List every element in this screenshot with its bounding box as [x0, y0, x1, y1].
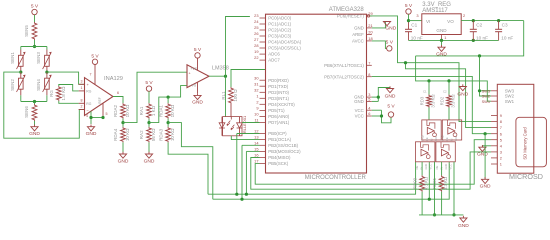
svg-text:13: 13 [254, 135, 258, 140]
svg-text:26: 26 [254, 31, 258, 36]
microcontroller U3 ATMEGA328 body [266, 14, 367, 173]
svg-text:10 nF: 10 nF [501, 35, 513, 40]
svg-text:OE: OE [415, 165, 419, 169]
svg-text:PD6(AIN0): PD6(AIN0) [268, 114, 290, 119]
svg-text:INA129: INA129 [104, 76, 123, 82]
svg-text:GND: GND [29, 131, 40, 137]
svg-text:2: 2 [500, 156, 502, 161]
wire RL1 top to ATMEGA [231, 70, 266, 88]
sensor SEN2 [20, 72, 22, 78]
resistor RG gain [56, 86, 61, 101]
LED D2 [239, 117, 241, 123]
wire reg gnd stub [441, 35, 443, 41]
svg-text:OE: OE [445, 137, 449, 141]
svg-text:31: 31 [254, 81, 258, 86]
svg-text:GND: GND [458, 223, 469, 229]
svg-text:9: 9 [500, 113, 502, 118]
wire RG top to pin1 [59, 85, 79, 91]
svg-text:RG: RG [49, 90, 54, 97]
ground above buffers [462, 84, 464, 86]
wire SD pin6 to ground [484, 134, 486, 179]
ground SD pin4 [481, 145, 483, 147]
svg-text:3.3 KΩ: 3.3 KΩ [431, 94, 436, 108]
svg-text:PD2(INT0): PD2(INT0) [268, 90, 289, 95]
wire INA out pin6 [113, 97, 123, 104]
svg-text:5 V: 5 V [405, 3, 413, 9]
capacitor C1 [408, 21, 410, 30]
svg-text:IN: IN [420, 167, 424, 170]
svg-text:VCC: VCC [434, 136, 438, 142]
svg-text:PC4(ADC4/SDA): PC4(ADC4/SDA) [268, 40, 302, 45]
svg-text:PB3(MOSI/OC2): PB3(MOSI/OC2) [268, 149, 301, 154]
svg-text:GND: GND [192, 100, 203, 106]
svg-text:ATMEGA328: ATMEGA328 [329, 7, 365, 13]
svg-text:PD1(TXD): PD1(TXD) [268, 84, 289, 89]
node LM358 out junction [224, 75, 227, 78]
svg-text:GND: GND [144, 158, 155, 164]
svg-text:23: 23 [254, 13, 258, 18]
svg-text:GND: GND [385, 25, 396, 31]
svg-text:10 KΩ: 10 KΩ [170, 104, 175, 117]
svg-text:IN: IN [450, 138, 454, 141]
wire RD2 to gate A2 [448, 108, 450, 120]
svg-text:17: 17 [254, 159, 258, 164]
node SD pin6 junction [484, 132, 487, 135]
wire gate B2 to RD01 [441, 162, 443, 176]
wire LM358 out [209, 75, 226, 77]
svg-text:RD3: RD3 [420, 96, 425, 105]
svg-text:29: 29 [368, 11, 372, 16]
node RDA divider mid [122, 119, 124, 123]
svg-text:12: 12 [254, 129, 258, 134]
wire riser to buffer B1 input [428, 162, 430, 199]
ground below RA2 [148, 142, 150, 152]
wire LM358 out to ATMEGA PC0 [226, 17, 250, 77]
wire 3.3V to SW3 SW2 [480, 56, 492, 96]
SD data pins 9-1 [491, 115, 497, 117]
svg-text:10 nF: 10 nF [476, 35, 488, 40]
ATMEGA left pins [260, 17, 266, 19]
svg-text:PC5(ADC5/SCL): PC5(ADC5/SCL) [268, 46, 301, 51]
resistor SEN6 [34, 102, 36, 105]
power 5V ATMEGA right [388, 112, 393, 117]
resistor SEN5 [32, 22, 37, 40]
wire gate B1 to RD00 [421, 162, 423, 176]
resistor RA1 [147, 103, 152, 119]
resistor RD01 [439, 175, 444, 191]
node bridge right tap [45, 71, 48, 74]
svg-text:PC2(ADC2): PC2(ADC2) [268, 28, 291, 33]
node INA gnd rail a [89, 116, 92, 119]
svg-text:C3: C3 [502, 23, 508, 28]
svg-text:SW1: SW1 [482, 99, 490, 104]
sensor SEN1 [20, 50, 22, 56]
wire SEN5 to bridge top rail [34, 40, 36, 47]
wire RG bottom to pin8 [59, 101, 79, 103]
wire 3.3V pullup rail [416, 56, 491, 101]
svg-text:PB2(SS/OC1B): PB2(SS/OC1B) [268, 143, 298, 148]
resistor RDA1 [166, 103, 171, 119]
svg-text:LM358: LM358 [212, 65, 229, 71]
svg-text:10 KΩ: 10 KΩ [125, 128, 130, 141]
ground buffers bottom [462, 216, 464, 218]
pin 3 +IN stub [79, 83, 85, 85]
resistor RA2 [148, 123, 150, 127]
svg-text:6: 6 [368, 111, 370, 116]
svg-text:RD2: RD2 [440, 96, 445, 105]
svg-text:11: 11 [254, 118, 258, 123]
svg-text:GND: GND [480, 184, 491, 190]
wire LED block to ATMEGA PB1 [231, 136, 259, 140]
svg-text:GND: GND [354, 99, 364, 104]
node RDA1 divider mid [167, 119, 169, 123]
svg-text:GND: GND [477, 151, 488, 157]
pin 8 RG stub [79, 102, 85, 104]
svg-text:RDA3: RDA3 [158, 128, 163, 141]
ground below SEN6 [34, 121, 36, 125]
svg-text:PC0(ADC0): PC0(ADC0) [268, 16, 291, 21]
buffer gate A2 [442, 120, 461, 140]
wire RL1 into box [230, 117, 232, 120]
svg-text:1: 1 [444, 35, 446, 40]
node INA gnd rail b [101, 116, 104, 119]
svg-text:RD00: RD00 [413, 177, 418, 189]
wire PB3 drop [246, 150, 259, 152]
resistor RDA2 [121, 103, 126, 119]
wire left tap to INA -IN (long loop) [4, 72, 85, 138]
svg-text:8: 8 [368, 72, 370, 77]
svg-text:9: 9 [256, 106, 258, 111]
svg-text:GND: GND [86, 131, 97, 137]
power 5V regulator input [406, 9, 411, 14]
buffer gate B2 [436, 142, 455, 162]
pin 2 -IN stub [79, 109, 85, 111]
wire SD pin4 to ground [482, 145, 491, 147]
resistor RD2 [447, 95, 452, 108]
wire RD3 top to pullup rail [428, 81, 430, 95]
wire ATMEGA gnd pins [372, 96, 379, 98]
wire buffer gnd rail [419, 214, 463, 216]
svg-text:5 V: 5 V [387, 104, 395, 110]
wire net to SD pin7 [406, 63, 492, 128]
svg-text:1: 1 [500, 162, 502, 167]
svg-text:RDA1: RDA1 [158, 105, 163, 118]
svg-text:PB1(OC1A): PB1(OC1A) [268, 137, 291, 142]
resistor RD3 [427, 95, 432, 108]
wire reg gnd rail [409, 39, 499, 41]
svg-text:1 KΩ: 1 KΩ [151, 105, 156, 116]
svg-text:REF: REF [98, 97, 102, 103]
svg-text:RG: RG [86, 102, 91, 106]
svg-text:7: 7 [500, 125, 502, 130]
svg-text:RL1: RL1 [221, 91, 226, 100]
capacitor C3 [498, 21, 500, 30]
wire RESET net to SD pin8 [370, 16, 491, 122]
svg-text:VO: VO [447, 19, 454, 24]
wire REF to ground rail [91, 117, 103, 119]
svg-text:GND: GND [436, 52, 447, 58]
svg-text:6: 6 [117, 91, 119, 95]
svg-text:16: 16 [254, 153, 258, 158]
svg-text:MICROCONTROLLER: MICROCONTROLLER [305, 175, 367, 181]
svg-text:VCC: VCC [454, 136, 458, 142]
wire RD00 to gnd rail [421, 192, 423, 215]
ground ATMEGA pin21 [383, 22, 390, 26]
svg-text:1.8 KΩ: 1.8 KΩ [61, 86, 66, 101]
wire ATMEGA vcc pins [372, 109, 382, 111]
svg-text:10 KΩ: 10 KΩ [170, 128, 175, 141]
wire PB0 drop [237, 133, 260, 135]
svg-text:AREF: AREF [352, 32, 364, 37]
svg-text:GND: GND [457, 91, 468, 97]
svg-text:OE: OE [435, 165, 439, 169]
svg-text:22: 22 [254, 55, 258, 60]
svg-text:C1: C1 [411, 23, 417, 28]
svg-text:5: 5 [500, 137, 502, 142]
wire RDA mid to LM358 plus input [123, 72, 187, 122]
svg-text:PB4(MISO): PB4(MISO) [268, 155, 291, 160]
svg-text:RLLED01: RLLED01 [242, 115, 247, 133]
wire net row 194 to buffer B1 left [208, 162, 416, 194]
svg-text:+: + [189, 71, 191, 75]
svg-text:PD4(XCK/T0): PD4(XCK/T0) [268, 102, 295, 107]
node reg input [407, 19, 410, 22]
svg-text:8: 8 [81, 99, 83, 103]
node 3.3V branch [478, 54, 481, 57]
ground SD pin6 [484, 177, 486, 179]
svg-text:PC6(/RESET): PC6(/RESET) [337, 14, 365, 19]
node pullup RD2 [447, 79, 450, 82]
svg-text:GND: GND [424, 164, 428, 170]
svg-text:25: 25 [254, 25, 258, 30]
svg-text:C1: C1 [423, 90, 427, 94]
power 5V supply (bridge top) [32, 9, 37, 14]
wire AVCC to 5V [372, 41, 387, 49]
svg-text:GND: GND [444, 164, 448, 170]
svg-text:56 KΩ: 56 KΩ [151, 128, 156, 141]
ground below INA [90, 125, 92, 127]
svg-text:5 V: 5 V [145, 80, 153, 86]
wire PB5 to SD pin5 [255, 140, 491, 185]
SD switch pins [491, 90, 497, 92]
svg-text:PB0(ICP): PB0(ICP) [268, 131, 287, 136]
svg-text:-VS: -VS [191, 83, 197, 87]
node RA divider mid [148, 119, 150, 123]
op-amp U2 LM358 triangle [187, 65, 209, 88]
wire reg output rail [461, 20, 524, 22]
svg-text:PB6(XTAL1/TOSC1): PB6(XTAL1/TOSC1) [324, 63, 364, 68]
svg-text:PC3(ADC3): PC3(ADC3) [268, 34, 291, 39]
wire INA V- to ground [90, 111, 92, 124]
wire gate B1 gnd drop [434, 162, 436, 215]
wire PB4 to SD pin3 [251, 152, 491, 189]
svg-text:10 nF: 10 nF [411, 35, 423, 40]
wire RD2 top to pullup rail [448, 81, 450, 95]
svg-text:2: 2 [81, 105, 83, 109]
node pullup RD3 [427, 79, 430, 82]
wire LED2 to ATMEGA PD7 [242, 122, 260, 124]
svg-text:3.3 KΩ: 3.3 KΩ [424, 176, 429, 190]
LED emission arrows [227, 121, 230, 126]
svg-text:3.3 KΩ: 3.3 KΩ [451, 94, 456, 108]
resistor RD00 [420, 175, 425, 191]
svg-text:VCC: VCC [355, 108, 364, 113]
svg-text:SEN3: SEN3 [36, 52, 41, 64]
svg-text:PD0(RXD): PD0(RXD) [268, 78, 289, 83]
capacitor C2 [472, 21, 474, 30]
svg-text:−: − [189, 84, 191, 88]
svg-text:4: 4 [86, 114, 88, 118]
svg-text:OE: OE [425, 137, 429, 141]
regulator U4 AMS1117 box [422, 14, 461, 35]
svg-text:5 V: 5 V [386, 39, 394, 45]
LED block RLLED01 box [223, 117, 242, 136]
wire RD3 to gate A1 [428, 108, 430, 120]
svg-text:100 Ω: 100 Ω [233, 89, 238, 102]
svg-text:VCC: VCC [355, 114, 364, 119]
wire right tap to INA +IN [47, 72, 85, 84]
svg-text:3: 3 [81, 80, 83, 84]
svg-text:7: 7 [368, 60, 370, 65]
svg-text:+VS: +VS [191, 67, 198, 71]
wire RDA1 mid route [168, 123, 213, 200]
wire PB7 net to SD pin6 [372, 76, 491, 133]
wire net row 199 to buffer B1 [213, 162, 449, 199]
svg-text:10 KΩ: 10 KΩ [125, 104, 130, 117]
node minus net branch [167, 96, 170, 99]
svg-text:MICROSD: MICROSD [509, 172, 543, 181]
connector SD card box [497, 84, 534, 173]
svg-text:3: 3 [500, 150, 502, 155]
wire RDA1 top branch [167, 97, 169, 103]
svg-text:SEN4: SEN4 [36, 79, 41, 91]
svg-text:3.3V_REG: 3.3V_REG [422, 2, 451, 8]
svg-text:ADC7: ADC7 [268, 58, 280, 63]
svg-text:7: 7 [90, 73, 92, 77]
svg-text:5 V: 5 V [31, 4, 39, 10]
wire PB2 drop [242, 144, 260, 146]
power 5V AVCC [387, 46, 392, 51]
svg-text:RG: RG [86, 90, 91, 94]
svg-text:GND: GND [436, 28, 447, 33]
svg-text:PC1(ADC1): PC1(ADC1) [268, 22, 291, 27]
svg-text:19: 19 [254, 49, 258, 54]
buffer gate B1 [416, 142, 435, 162]
resistor RDA4 [122, 123, 124, 127]
svg-text:VCC: VCC [429, 164, 433, 170]
svg-text:PB5(SCK): PB5(SCK) [268, 161, 289, 166]
svg-text:AMS1117: AMS1117 [422, 8, 448, 14]
resistor RDA3 [167, 123, 169, 127]
ground ATMEGA right [389, 86, 391, 88]
buffer gate A1 [422, 120, 441, 140]
wire 3.3V down and left [416, 21, 524, 56]
svg-text:GND: GND [441, 135, 445, 141]
sensor SEN3 [46, 50, 48, 56]
power 5V above RA1 [146, 86, 151, 91]
node bridge bottom junction [33, 100, 36, 103]
svg-text:21: 21 [368, 23, 372, 28]
power 5V for INA [92, 59, 97, 64]
svg-text:8: 8 [500, 119, 502, 124]
svg-text:PB7(XTAL2/TOSC2): PB7(XTAL2/TOSC2) [324, 74, 364, 79]
svg-text:18: 18 [368, 36, 372, 41]
svg-text:VCC: VCC [449, 164, 453, 170]
svg-text:RDA4: RDA4 [113, 128, 118, 141]
svg-text:5 V: 5 V [91, 53, 99, 59]
pin 1 RG stub [79, 90, 85, 92]
wire bridge bottom rail [20, 95, 22, 101]
svg-text:3: 3 [416, 13, 418, 18]
svg-text:VI: VI [426, 19, 430, 24]
svg-text:15: 15 [254, 147, 258, 152]
wire pin21 to gnd [372, 22, 387, 28]
svg-text:RDA2: RDA2 [113, 105, 118, 118]
svg-text:SD Memory Card: SD Memory Card [523, 127, 528, 160]
wire RD01 to gnd rail [441, 192, 443, 215]
svg-text:PD3(INT1): PD3(INT1) [268, 96, 289, 101]
svg-text:27: 27 [254, 37, 258, 42]
svg-text:28: 28 [254, 43, 258, 48]
wire RA mid to LM358 minus input [149, 86, 187, 123]
op-amp U1 INA129 triangle [85, 78, 114, 116]
svg-text:5 V: 5 V [194, 47, 202, 53]
svg-text:2: 2 [463, 13, 465, 18]
wire LM358 out down to LED block [225, 76, 227, 116]
svg-text:GND: GND [354, 26, 364, 31]
svg-text:AVCC: AVCC [352, 39, 364, 44]
svg-text:SEN5: SEN5 [24, 25, 29, 37]
sensor SEN4 [46, 72, 48, 78]
ATMEGA right pins [367, 15, 372, 17]
ground below LM358 [197, 82, 199, 93]
svg-text:2: 2 [256, 99, 258, 104]
ground below RDA4 [122, 142, 124, 152]
svg-text:SEN2: SEN2 [10, 79, 15, 91]
svg-text:PD7(AIN1): PD7(AIN1) [268, 120, 290, 125]
svg-text:6: 6 [500, 131, 502, 136]
svg-text:ADC6: ADC6 [268, 52, 280, 57]
wire bridge top rail [21, 46, 47, 48]
svg-text:PD5(T1): PD5(T1) [268, 108, 285, 113]
node bridge top junction [33, 45, 36, 48]
wire RL1 bottom [230, 104, 232, 117]
svg-text:GND: GND [385, 93, 396, 99]
svg-text:1: 1 [81, 86, 83, 90]
svg-text:SW1: SW1 [505, 99, 515, 104]
svg-text:SEN1: SEN1 [10, 52, 15, 64]
svg-text:1: 1 [256, 93, 258, 98]
node bridge left tap [19, 71, 22, 74]
svg-text:3.3 KΩ: 3.3 KΩ [443, 176, 448, 190]
svg-text:RA1: RA1 [139, 106, 144, 115]
ground regulator [441, 40, 443, 45]
svg-text:IN: IN [430, 138, 434, 141]
svg-text:5: 5 [368, 97, 370, 102]
resistor RL1 [229, 87, 234, 104]
pin 5 REF stub [102, 103, 104, 117]
svg-text:C2: C2 [443, 90, 447, 94]
svg-text:SEN6: SEN6 [24, 106, 29, 118]
svg-text:5: 5 [106, 112, 108, 116]
wire gate B2 gnd drop [453, 162, 455, 215]
svg-text:32: 32 [254, 87, 258, 92]
wire RDA3 bottom route [168, 142, 208, 194]
svg-text:RA2: RA2 [139, 130, 144, 139]
power 5V for LM358 [195, 53, 200, 58]
LED D1 [221, 117, 223, 123]
svg-text:GND: GND [118, 158, 129, 164]
